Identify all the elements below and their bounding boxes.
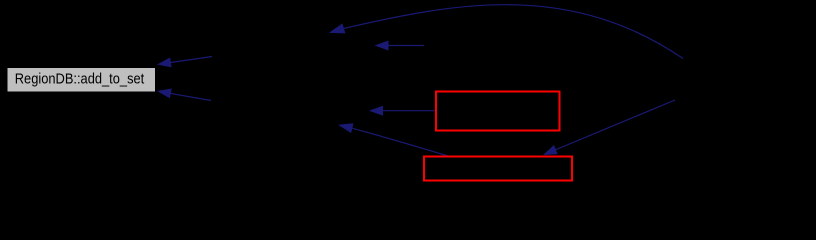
svg-text:RegionDB::add_to_set: RegionDB::add_to_set (15, 72, 145, 88)
